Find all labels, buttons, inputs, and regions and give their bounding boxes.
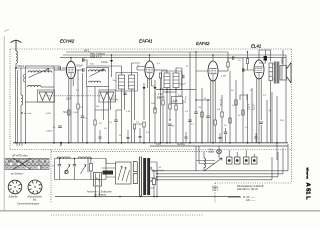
wire left drop 1 (15, 68, 17, 143)
resistor R10 (235, 100, 237, 105)
svg-text:100pF: 100pF (46, 131, 53, 133)
bandfilter box (26, 66, 55, 102)
wire bundle left (196, 161, 215, 172)
IF1 winding L8 turns (129, 79, 135, 86)
wire IF2 top (162, 68, 182, 73)
selector contact d (252, 157, 258, 164)
socket view Abstimmkreis (28, 180, 42, 194)
wire C26 (207, 100, 209, 143)
resistor R4 (143, 122, 145, 127)
tube V2 EAF41 (145, 60, 154, 79)
wire mid drop a (247, 94, 249, 143)
selector contact c (244, 157, 250, 164)
wire IF1 top2 (132, 63, 141, 75)
svg-text:4,5V: 4,5V (209, 150, 214, 152)
svg-text:NF-Ltg.: NF-Ltg. (219, 98, 222, 106)
svg-text:EAF42: EAF42 (196, 41, 210, 46)
wire mid drop i (229, 71, 231, 143)
capacitor C4 (83, 68, 84, 71)
wire mid drop c (266, 100, 268, 143)
wire node to filter (16, 67, 59, 69)
chassis dashed border bottom (10, 149, 292, 151)
wire bandfilter mid (41, 86, 54, 88)
chassis dashed border top (10, 48, 292, 50)
wire C13 link (259, 50, 265, 63)
capacitor C6 (83, 58, 84, 61)
svg-text:220-240 V~ 50 Hz: 220-240 V~ 50 Hz (237, 187, 259, 191)
wire R9 top (247, 52, 249, 59)
svg-text:2.ZF: 2.ZF (158, 94, 163, 96)
boxed label 4,5k (172, 97, 183, 104)
wire speaker top (282, 50, 284, 66)
svg-text:Netzltg.: Netzltg. (177, 143, 185, 146)
bandfilter coil L4 (28, 85, 42, 87)
node dots filter (59, 158, 60, 159)
resistor R14 (77, 104, 79, 109)
varistor arrow (65, 165, 71, 175)
wire bundle h4 (157, 157, 272, 180)
output transformer primary (269, 63, 273, 81)
wire IF2 drops (167, 88, 176, 143)
capacitor C17 (58, 165, 61, 166)
wire V3 pins (211, 80, 215, 105)
wire R6 link (227, 58, 229, 71)
svg-text:1.ZF: 1.ZF (112, 97, 117, 99)
capacitor Cf (255, 137, 258, 138)
wire coil L2 bottom (20, 105, 22, 143)
power-unit dashed border bottom right (215, 182, 292, 184)
wire R20 (201, 117, 203, 143)
mains switch contacts (96, 174, 100, 186)
svg-text:EAF41: EAF41 (139, 39, 153, 44)
wire mid drop f (201, 88, 203, 143)
antenna (11, 40, 22, 52)
svg-text:Bd.: Bd. (33, 198, 37, 201)
label block (103, 171, 114, 175)
node dot mid1 (21, 112, 22, 113)
resistor R2 (94, 120, 96, 125)
wire V3 plate right (218, 70, 228, 72)
wire R5 drop (175, 110, 177, 143)
bus heater line 1 (63, 54, 286, 56)
wire selector feed verticals (196, 146, 199, 164)
resistor R6 (227, 62, 229, 67)
wire mid drop b (251, 88, 253, 143)
electrolytic plus signs (150, 167, 152, 182)
resistor R5 (175, 105, 177, 110)
IF2 winding L9 (164, 73, 170, 88)
bandfilter edge coil (23, 74, 25, 82)
resistor R7 (214, 120, 216, 125)
node dots mid (166, 91, 167, 92)
wire R14 (77, 70, 79, 143)
svg-text:0,3M: 0,3M (137, 124, 142, 126)
antenna coil L2 (21, 95, 23, 105)
bandfilter coil L3 (28, 71, 52, 73)
IF1 winding L7 turns (119, 79, 125, 86)
resistor R12 (229, 118, 231, 123)
wire cap stubs (100, 128, 256, 143)
wire mid drop d (271, 92, 273, 143)
wire mid drop g (235, 80, 237, 143)
wire V4 drops (257, 88, 261, 143)
transformer core (139, 157, 141, 197)
wire choke (203, 152, 205, 171)
bus heater line 2 (60, 57, 286, 59)
return line dots (166, 89, 167, 90)
svg-text:0,5A: 0,5A (209, 151, 214, 154)
wire C10 link (228, 58, 243, 64)
resistor R8 (221, 112, 223, 117)
wire bandfilter left drop (25, 102, 27, 143)
ground bus (13, 142, 288, 144)
pilot lamp (217, 149, 222, 154)
capacitor C11 (224, 132, 227, 133)
wire V2 top (149, 55, 151, 61)
wire R3 drop (160, 78, 162, 143)
trimmer table (5, 158, 49, 169)
wire power left vert (87, 159, 89, 173)
wire C17 (59, 159, 61, 180)
power bottom bus (55, 196, 240, 198)
wire V2 cathode drop (149, 100, 151, 143)
wire C24 (116, 110, 122, 143)
wire corner bracket (240, 95, 247, 100)
power-unit dashed border top (51, 150, 215, 152)
capacitor Ca (99, 137, 102, 138)
speaker cone (287, 63, 292, 84)
choke coil L14 (204, 158, 206, 168)
wire V1 top (70, 58, 72, 62)
fuse F1 (89, 164, 92, 172)
lamp symbol small (65, 170, 68, 173)
svg-text:100pF: 100pF (101, 61, 108, 64)
bandfilter tuning arrow (29, 69, 50, 78)
ground symbol ticks (17, 143, 22, 146)
wire V1 cathode drop (70, 96, 72, 143)
bus junction dots2 (95, 196, 97, 198)
svg-text:EL41: EL41 (251, 44, 262, 49)
wire right drop 2 (281, 58, 283, 64)
mains filter coil L12 (78, 157, 91, 159)
wire V1 pins (69, 79, 73, 97)
svg-text:NSB 4,3 V: NSB 4,3 V (90, 56, 102, 59)
wire C25 (169, 127, 171, 143)
wire avc drop2 (189, 52, 191, 143)
resistor R15 (133, 124, 135, 129)
capacitor C16 (194, 112, 197, 113)
wire IF1 drops (122, 89, 135, 143)
IF1 can outline (116, 73, 138, 92)
wire V2 pins (147, 79, 151, 100)
wire R17 (162, 88, 164, 143)
capacitor C12 (243, 68, 244, 71)
selector lever (204, 158, 222, 171)
wire transformer leads left (102, 159, 116, 178)
svg-text:500pF: 500pF (76, 64, 83, 67)
power-unit dashed border left (50, 150, 52, 203)
IF1 winding L7 (119, 75, 125, 89)
capacitor C21 electrolytic (152, 179, 155, 185)
wire rect vert (156, 162, 158, 197)
antenna coil L1 (16, 51, 17, 63)
selector contact a (227, 157, 233, 164)
wire bundle h1 (157, 144, 288, 171)
tube V1 ECH42 (66, 60, 75, 79)
svg-text:0,1M: 0,1M (171, 102, 176, 104)
wire C14 drop (260, 125, 262, 143)
resistor R19 (169, 104, 171, 109)
wire transformer secondary (271, 64, 274, 143)
wire C20 C21 (153, 170, 155, 196)
wire IF1 top link (76, 70, 132, 75)
svg-text:4700: 4700 (46, 113, 52, 115)
wire selector feeds (229, 150, 254, 157)
bus junction tick (60, 143, 62, 146)
capacitor Cd (185, 137, 188, 138)
bundle dots (156, 170, 158, 172)
wire bottom ticks (228, 196, 245, 198)
svg-text:Antennen- u. Erdbuchse: Antennen- u. Erdbuchse (87, 190, 112, 193)
tube V4 EL41 (254, 59, 264, 79)
mains switch S1 (94, 173, 102, 187)
svg-text:0,5M: 0,5M (221, 76, 226, 78)
wire switch drop (96, 186, 100, 197)
resistor R16 (154, 108, 156, 113)
wire left drop 1b (17, 70, 19, 143)
oscillator arrow (90, 69, 105, 77)
IF2 can outline (162, 71, 182, 90)
wire c16 drop (195, 100, 197, 143)
tuning gang C3 plates (39, 92, 53, 101)
IF1 winding L8 (129, 75, 135, 89)
svg-text:Im Lauf: Im Lauf (24, 113, 32, 115)
svg-text:470kHz: 470kHz (111, 100, 120, 102)
svg-text:220 ——: 220 —— (246, 199, 256, 202)
wire V3 drops (211, 90, 215, 143)
capacitor Cb (127, 138, 130, 139)
wire R7 drop (214, 125, 216, 143)
wire C9 drop (181, 68, 183, 95)
capacitor C14 (260, 122, 263, 123)
svg-text:0,5M: 0,5M (157, 98, 162, 100)
svg-text:Gummiverbindungen: Gummiverbindungen (17, 202, 40, 205)
wire C18 (74, 159, 76, 180)
transformer secondary winding (143, 158, 146, 195)
svg-text:Außenkr.: Außenkr. (9, 196, 19, 199)
capacitor C9 (183, 75, 184, 78)
wire osc left drop (86, 87, 88, 143)
resistor R17 (162, 100, 164, 105)
resistor R9 (246, 59, 248, 64)
svg-text:am Drehco *: am Drehco * (11, 173, 24, 176)
node dots mid2 (195, 99, 196, 100)
chassis dashed border left (9, 49, 11, 150)
ground bus junctions (15, 142, 278, 144)
IF2 winding L10 turns (173, 77, 179, 84)
wire R19 (169, 95, 171, 120)
wire bundle h2 (157, 148, 283, 174)
svg-text:ECH42: ECH42 (60, 39, 75, 44)
output transformer core (274, 62, 279, 84)
output transformer primary turns (269, 67, 273, 76)
capacitor C15 (188, 120, 191, 121)
mains filter box border (55, 159, 107, 180)
wire V1 grid left (54, 69, 66, 71)
capacitor C24 (114, 120, 117, 121)
page bottom edge shadow (0, 210, 320, 212)
wire V3 top (212, 55, 214, 61)
wire bandfilter right drop (53, 102, 55, 143)
capacitor C8 (123, 93, 126, 94)
power-unit dashed border step (214, 183, 216, 203)
wire R4 drop (143, 127, 145, 143)
wire V3 grid left (196, 71, 208, 100)
svg-text:ZF-Ltg.: ZF-Ltg. (184, 96, 187, 103)
svg-text:6,3V: 6,3V (156, 143, 161, 146)
svg-text:6,3 V~: 6,3 V~ (252, 102, 255, 110)
wire osc right drop (108, 87, 110, 143)
wire V1 pin drop (68, 90, 70, 143)
power-unit dashed border bottom (51, 214, 203, 216)
oscillator coil L5 (89, 70, 106, 72)
capacitor C18 (73, 165, 76, 166)
socket view Aussenkreis (8, 180, 22, 194)
selector contact b (235, 157, 241, 164)
transformer tap box (116, 162, 132, 184)
svg-text:0,1M: 0,1M (73, 112, 78, 114)
wire right drop 1 (285, 55, 287, 143)
svg-text:100pF: 100pF (180, 84, 187, 86)
tuning gang C7 plates (100, 92, 114, 101)
wire V2 diode drops (144, 80, 155, 120)
wire AVC drop (195, 52, 197, 71)
speaker magnet (280, 66, 287, 81)
capacitor C2 (59, 66, 60, 69)
svg-text:220 V: 220 V (247, 103, 250, 110)
wire V1 plate right (76, 69, 82, 71)
varistor arrow 2 (81, 165, 87, 175)
wire gang2 drop (104, 101, 111, 120)
oscillator coil L6 (89, 81, 101, 82)
wire osc mid drop (94, 87, 96, 121)
wire return line (156, 88, 196, 90)
wire V4 anode top (259, 50, 271, 62)
wire C11 (225, 128, 227, 143)
tuning gang C7 frame (99, 90, 116, 102)
wire transformer leads right (150, 162, 157, 188)
wire bundle h3 (157, 152, 278, 177)
mains filter coil L11 (57, 157, 70, 159)
svg-text:A 51 L: A 51 L (304, 183, 310, 201)
gang coupling dashed line (44, 95, 101, 97)
wire link mid2 (163, 91, 176, 93)
resistor R1 (68, 110, 70, 115)
ground bus lower (150, 145, 288, 147)
svg-text:220 V: 220 V (212, 189, 219, 192)
capacitor C13 (264, 56, 267, 61)
resistor R3 (159, 73, 161, 78)
capacitor C23 (81, 116, 84, 117)
svg-text:50pF: 50pF (66, 99, 72, 101)
wire F1 (90, 159, 92, 180)
wire diode drop (111, 55, 113, 77)
svg-text:2F+470 ohm: 2F+470 ohm (11, 153, 28, 157)
node dots tube tops (70, 57, 71, 58)
chassis dashed border right (291, 49, 293, 183)
svg-text:50pF: 50pF (55, 65, 61, 67)
wire V2 grid left (137, 67, 145, 71)
diode D3 (154, 87, 157, 90)
wire mid drop e (276, 96, 278, 160)
node antenna junction (15, 67, 17, 69)
oscillator box (87, 68, 109, 87)
capacitor C10 (233, 56, 234, 59)
svg-text:Minerva: Minerva (306, 168, 310, 180)
wire osc mid drop 2 (94, 125, 96, 143)
capacitor Cc (139, 137, 142, 138)
capacitor Ce (219, 138, 222, 139)
wire antenna down (15, 63, 17, 68)
IF2 winding L10 (173, 73, 179, 88)
capacitor C20 electrolytic (152, 171, 155, 172)
page left edge shadow (3, 36, 5, 211)
transformer tap arrows (118, 166, 130, 182)
tube V3 EAF42 (208, 60, 218, 81)
svg-text:1M: 1M (198, 107, 201, 109)
wire link mid3 (196, 99, 210, 101)
diode D2 (143, 87, 146, 90)
resistor R11 (242, 110, 244, 115)
wire V4 grid left (243, 64, 254, 70)
wire V4 pins (257, 79, 261, 109)
wire left drop 2 (20, 68, 22, 95)
capacitor C25 (168, 124, 171, 125)
wire mid drop h (242, 64, 244, 143)
svg-text:50pF: 50pF (178, 95, 184, 97)
wire avc drop3 (182, 100, 184, 143)
wire lamp (218, 146, 220, 158)
wire osc top (82, 60, 87, 68)
diode D1 (110, 60, 113, 63)
IF2 winding L9 turns (164, 77, 170, 84)
wire IF1 plate (88, 66, 122, 75)
mains filter top bus (55, 158, 107, 160)
wire R8 drops (221, 95, 223, 143)
capacitor C26 (206, 116, 209, 117)
bus AVC line (66, 52, 228, 62)
selector contact circles (228, 159, 231, 162)
transformer primary winding (133, 162, 137, 185)
wire R15 (134, 129, 136, 143)
capacitor C22 (58, 126, 61, 127)
wire cap to tube (62, 67, 67, 69)
resistor R20 (201, 112, 203, 117)
wire C23 (82, 73, 84, 143)
wire link mid1 (95, 109, 109, 111)
speaker magnet pole (281, 66, 283, 81)
tuning gang C3 frame (38, 90, 55, 102)
wire R16 (154, 92, 156, 143)
wire V2 plate right (154, 69, 162, 71)
